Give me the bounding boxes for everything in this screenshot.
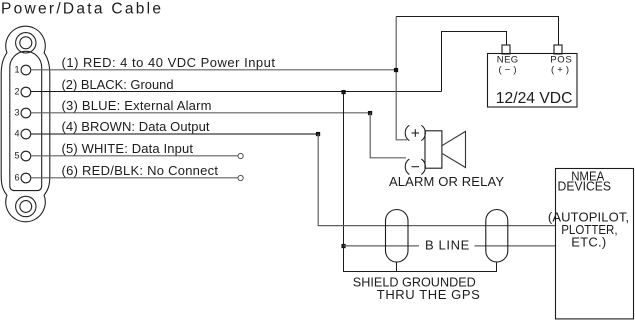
svg-text:(+): (+) <box>551 65 569 76</box>
wire V3 alarm minus <box>370 113 406 158</box>
pin 6 <box>21 173 31 183</box>
shield capsule right <box>486 210 508 263</box>
svg-text:5: 5 <box>14 151 19 161</box>
svg-text:2: 2 <box>14 87 19 97</box>
pin 3 <box>21 108 31 118</box>
wire V5 ground drop <box>344 92 497 272</box>
wire pin3 BLUE <box>31 112 370 114</box>
wire pin1 RED <box>31 69 396 71</box>
svg-text:(2) BLACK: Ground: (2) BLACK: Ground <box>62 77 174 92</box>
battery terminal POS <box>554 45 562 54</box>
battery 12/24 VDC <box>488 54 578 108</box>
wire pin2 BLACK <box>31 91 442 93</box>
wire pin4 BROWN <box>31 133 318 135</box>
svg-text:ETC.): ETC.) <box>571 235 606 250</box>
screw top <box>16 33 36 53</box>
junction dot wire3 corner <box>368 111 372 115</box>
wire V4 data to NMEA <box>318 134 555 226</box>
wire pin5 WHITE <box>31 155 238 157</box>
battery terminal NEG <box>502 45 510 54</box>
junction dot wire4 corner <box>316 132 320 136</box>
wire battery top (POS feed) <box>396 17 559 46</box>
pin 2 <box>21 87 31 97</box>
shield capsule left <box>386 210 409 263</box>
alarm minus terminal <box>405 159 425 174</box>
pin 5 <box>21 151 31 161</box>
no-connect circle wire5 <box>238 153 243 158</box>
alarm horn <box>442 131 466 167</box>
svg-text:3: 3 <box>14 108 19 118</box>
svg-text:1: 1 <box>14 65 19 75</box>
svg-text:(−): (−) <box>499 65 517 76</box>
screw bottom <box>16 196 36 216</box>
svg-text:THRU THE GPS: THRU THE GPS <box>377 287 480 302</box>
svg-text:(5) WHITE: Data Input: (5) WHITE: Data Input <box>62 141 194 156</box>
svg-text:(6) RED/BLK: No Connect: (6) RED/BLK: No Connect <box>62 163 219 178</box>
svg-text:B LINE: B LINE <box>425 238 470 253</box>
svg-text:DEVICES: DEVICES <box>558 178 612 193</box>
wire pin6 RED/BLK <box>31 177 238 179</box>
NMEA devices box <box>556 169 634 319</box>
svg-text:(4) BROWN: Data Output: (4) BROWN: Data Output <box>62 119 210 134</box>
wire B line right seg <box>475 245 556 247</box>
junction dot wire1/V1 <box>394 68 398 72</box>
junction dot B line <box>341 244 345 248</box>
alarm relay box <box>425 131 442 168</box>
svg-text:(3) BLUE: External Alarm: (3) BLUE: External Alarm <box>62 98 212 113</box>
svg-text:(1) RED: 4 to 40 VDC Power Inp: (1) RED: 4 to 40 VDC Power Input <box>62 55 276 70</box>
connector J1 inner pin field <box>10 51 42 190</box>
connector J1 outer shell <box>1 26 50 222</box>
alarm plus terminal <box>405 125 425 140</box>
junction dot wire2/V5 <box>341 90 345 94</box>
wire shield stub left capsule <box>396 262 398 272</box>
svg-text:6: 6 <box>14 173 19 183</box>
wire B line left seg <box>344 245 420 247</box>
no-connect circle wire6 <box>238 175 243 180</box>
pin 1 <box>21 65 31 75</box>
svg-text:Power/Data Cable: Power/Data Cable <box>1 1 161 18</box>
svg-text:12/24 VDC: 12/24 VDC <box>496 90 573 107</box>
pin 4 <box>21 129 31 139</box>
wire NEG feed <box>442 32 507 92</box>
svg-text:4: 4 <box>14 129 19 139</box>
wire V1 pos drop to alarm <box>396 17 407 140</box>
svg-text:ALARM OR RELAY: ALARM OR RELAY <box>389 174 504 189</box>
